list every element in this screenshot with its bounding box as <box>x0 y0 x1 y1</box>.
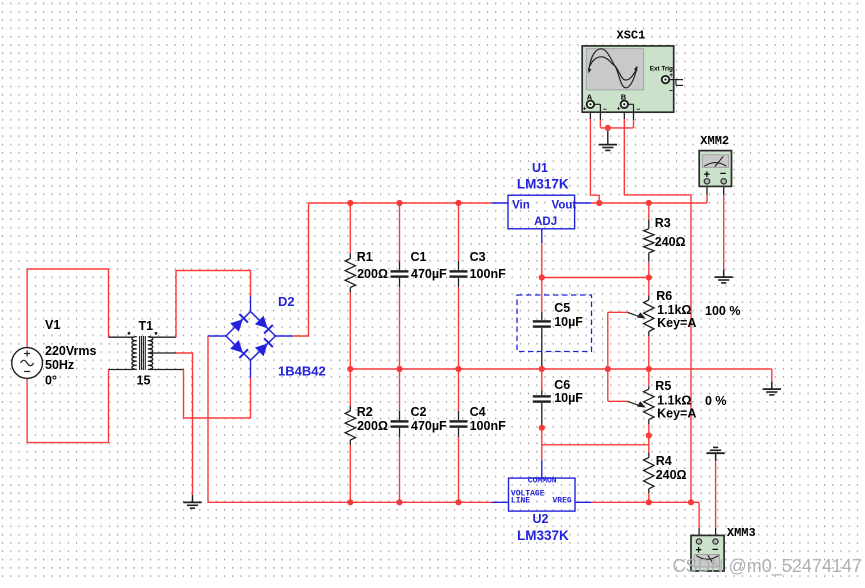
capacitor C3 <box>450 203 507 369</box>
svg-text:−: − <box>712 544 718 556</box>
ground XMM2 <box>715 270 733 283</box>
ground mid rail <box>763 382 781 395</box>
svg-text:R5: R5 <box>655 379 671 393</box>
svg-text:D2: D2 <box>278 294 295 309</box>
svg-text:−: − <box>669 88 673 95</box>
svg-text:+: + <box>669 72 673 79</box>
ground XMM3 inverted <box>706 447 724 461</box>
svg-text:−: − <box>636 106 640 113</box>
svg-text:Key=A: Key=A <box>657 407 696 421</box>
svg-text:15: 15 <box>137 374 151 388</box>
wire XMM3 minus to ground <box>715 462 717 540</box>
svg-text:V1: V1 <box>45 318 60 332</box>
svg-text:+: + <box>583 106 587 113</box>
wire scope B to negative rail <box>624 108 691 502</box>
resistor R1 <box>345 203 388 369</box>
svg-text:XSC1: XSC1 <box>617 29 646 43</box>
svg-text:T1: T1 <box>139 319 154 333</box>
svg-text:R4: R4 <box>656 454 672 468</box>
svg-text:10µF: 10µF <box>554 391 583 405</box>
svg-text:Vout: Vout <box>552 200 577 212</box>
svg-text:100nF: 100nF <box>470 419 506 433</box>
svg-text:R2: R2 <box>357 405 373 419</box>
wire mid rail (0V) <box>350 369 772 382</box>
svg-text:−: − <box>603 106 607 113</box>
wire V1 top to T1 primary top <box>27 269 134 348</box>
svg-text:470µF: 470µF <box>411 267 447 281</box>
label 100 percent <box>705 304 740 318</box>
svg-text:U1: U1 <box>532 161 548 175</box>
svg-text:100 %: 100 % <box>705 304 740 318</box>
svg-text:C5: C5 <box>554 301 570 315</box>
wire C6 node to R4 top <box>542 428 649 478</box>
junction dots positive rail <box>347 200 461 206</box>
svg-text:C3: C3 <box>470 250 486 264</box>
wire T1 center tap to ground <box>149 353 193 495</box>
svg-text:ADJ: ADJ <box>534 216 557 228</box>
resistor R3 <box>644 203 686 278</box>
svg-text:CSDN @m0_52474147: CSDN @m0_52474147 <box>673 556 862 577</box>
capacitor C4 <box>450 369 507 502</box>
capacitor C5 <box>533 278 584 370</box>
svg-text:LINE: LINE <box>511 496 530 505</box>
svg-text:R3: R3 <box>655 216 671 230</box>
svg-text:10µF: 10µF <box>554 315 583 329</box>
svg-text:C1: C1 <box>411 250 427 264</box>
multimeter XMM2 <box>699 134 731 186</box>
wire scope A to output rail <box>590 108 599 203</box>
wire T1 secondary bottom to bridge bottom vertex <box>149 360 251 418</box>
svg-text:U2: U2 <box>533 512 549 526</box>
svg-text:R1: R1 <box>357 250 373 264</box>
svg-text:240Ω: 240Ω <box>655 235 686 249</box>
wire scope A/B minus to ground <box>600 112 633 128</box>
svg-text:0°: 0° <box>45 374 57 388</box>
potentiometer R6 <box>608 278 697 370</box>
svg-text:220Vrms: 220Vrms <box>45 344 96 358</box>
svg-text:+: + <box>617 106 621 113</box>
wire V1 bottom to T1 primary bottom <box>27 370 134 443</box>
wire XMM2 minus to ground <box>723 184 725 270</box>
svg-text:200Ω: 200Ω <box>357 419 388 433</box>
wire bridge left vertex to negative bottom rail <box>208 336 509 502</box>
svg-text:1.1kΩ: 1.1kΩ <box>657 303 691 317</box>
wire bridge right vertex to positive top rail <box>276 203 509 336</box>
AC source V1 <box>12 318 97 388</box>
dashed selection box around C5 <box>517 295 592 352</box>
junction dot R5 bottom <box>646 432 652 438</box>
bridge rectifier D2 <box>226 294 326 379</box>
label 0 percent <box>705 394 727 408</box>
potentiometer R5 <box>608 369 697 436</box>
svg-text:1.1kΩ: 1.1kΩ <box>657 394 691 408</box>
svg-text:XMM3: XMM3 <box>727 526 756 540</box>
junction dot C6 bottom <box>539 425 545 431</box>
svg-text:R6: R6 <box>656 289 672 303</box>
svg-text:Vin: Vin <box>512 200 530 212</box>
svg-text:XMM2: XMM2 <box>700 134 729 148</box>
capacitor C2 <box>391 369 448 502</box>
svg-text:1B4B42: 1B4B42 <box>278 364 326 379</box>
svg-text:0 %: 0 % <box>705 394 727 408</box>
junction dots ADJ node <box>539 274 652 280</box>
svg-text:COMMON: COMMON <box>528 476 557 485</box>
svg-text:C4: C4 <box>470 405 486 419</box>
wire U1 ADJ node <box>542 229 649 278</box>
capacitor C1 <box>391 203 448 369</box>
wire U2 VREG to XMM3 plus <box>575 502 699 539</box>
ground scope <box>599 128 617 150</box>
svg-text:VREG: VREG <box>553 496 572 505</box>
svg-text:C2: C2 <box>411 405 427 419</box>
junction dots Vout rail <box>596 200 652 206</box>
svg-text:LM317K: LM317K <box>517 177 569 192</box>
capacitor C6 <box>533 369 584 428</box>
transformer T1 <box>128 319 158 388</box>
svg-text:+: + <box>695 545 701 557</box>
svg-text:LM337K: LM337K <box>517 528 569 543</box>
regulator U2 LM337K <box>509 476 576 543</box>
junction dots negative rail <box>347 499 694 505</box>
wire R6 wiper to R5 wiper via mid rail <box>607 312 609 401</box>
resistor R2 <box>345 369 388 502</box>
resistor R4 <box>644 436 687 503</box>
watermark <box>673 556 862 577</box>
svg-text:C6: C6 <box>554 378 570 392</box>
svg-text:50Hz: 50Hz <box>45 358 74 372</box>
wire U1 Vout to XMM2 plus <box>575 184 707 204</box>
ground center tap <box>183 495 201 508</box>
regulator U1 LM317K <box>508 161 576 229</box>
svg-text:100nF: 100nF <box>470 267 506 281</box>
svg-text:240Ω: 240Ω <box>656 468 687 482</box>
wire T1 secondary top to bridge top vertex <box>149 271 251 338</box>
svg-text:200Ω: 200Ω <box>357 267 388 281</box>
junction dot scope ground <box>605 125 611 131</box>
oscilloscope XSC1 <box>582 29 683 114</box>
svg-text:Key=A: Key=A <box>657 316 696 330</box>
junction dots mid rail <box>347 366 652 372</box>
multimeter XMM3 <box>691 526 756 571</box>
svg-text:470µF: 470µF <box>411 419 447 433</box>
